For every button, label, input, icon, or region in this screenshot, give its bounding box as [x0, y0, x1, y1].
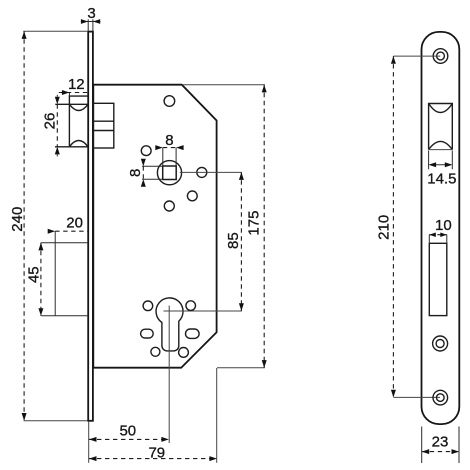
middle screw hole — [433, 336, 448, 351]
svg-text:8: 8 — [127, 169, 144, 177]
bottom extension lines — [88, 421, 90, 463]
dimension 85 — [225, 172, 244, 311]
dimension 240 (faceplate height) — [9, 31, 88, 421]
latch block (right of faceplate) — [93, 103, 114, 148]
dimension 175 — [182, 85, 267, 368]
dimension 50 — [89, 422, 169, 442]
dimension 79 — [89, 445, 217, 462]
svg-text:14.5: 14.5 — [427, 171, 456, 188]
top hole — [164, 96, 175, 107]
faceplate left view — [88, 32, 93, 421]
deadbolt cutout on plate — [429, 243, 447, 315]
dimension 10 — [429, 217, 451, 243]
right plate outline — [422, 32, 460, 424]
lock body outline — [93, 85, 216, 368]
svg-text:175: 175 — [246, 211, 263, 236]
svg-text:210: 210 — [375, 215, 392, 240]
euro cylinder hole — [156, 298, 183, 351]
dimension 8 horizontal (spindle square) — [155, 132, 183, 166]
svg-text:8: 8 — [165, 132, 173, 149]
dimension 20 (follower rect width) — [48, 215, 88, 234]
dimension 45 (follower rect height) — [26, 243, 44, 316]
dimension 12 (latch) — [59, 76, 88, 96]
cylinder crosshair horizontal leader to 85 dim — [164, 310, 242, 312]
follower rect lower-left (45x20) — [41, 231, 88, 316]
spindle square 8x8 — [163, 166, 177, 180]
svg-text:45: 45 — [26, 266, 43, 283]
bottom screw hole — [433, 390, 448, 405]
svg-text:20: 20 — [66, 215, 83, 232]
dimension 8 vertical (spindle square) — [127, 159, 163, 187]
svg-text:26: 26 — [42, 113, 59, 130]
dimension 14.5 — [427, 151, 456, 188]
svg-text:240: 240 — [9, 207, 26, 232]
dimension 26 (latch height) — [42, 95, 60, 157]
svg-text:50: 50 — [119, 422, 136, 439]
svg-text:3: 3 — [87, 5, 95, 22]
svg-text:85: 85 — [225, 232, 242, 249]
small holes near spindle — [141, 146, 151, 156]
svg-text:23: 23 — [432, 434, 449, 451]
dimension 23 — [422, 427, 459, 464]
dimension 210 — [375, 56, 440, 397]
holes around cylinder — [143, 301, 153, 311]
svg-text:10: 10 — [435, 217, 452, 234]
cylinder crosshair vertical — [168, 306, 170, 444]
spindle leader to 85 dim — [180, 171, 242, 173]
svg-text:12: 12 — [68, 76, 85, 93]
svg-text:79: 79 — [148, 445, 165, 462]
top screw hole — [433, 49, 448, 64]
latch head (left of faceplate) — [55, 96, 88, 147]
latch cutout on plate — [429, 104, 453, 150]
spindle circle — [157, 161, 181, 185]
dimension 3 (faceplate thickness) — [81, 5, 101, 31]
